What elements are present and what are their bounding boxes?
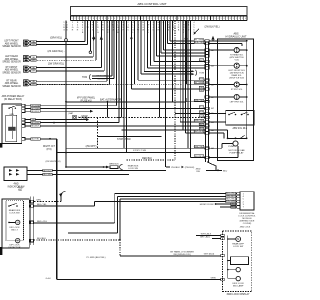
svg-text:IND LT: IND LT: [11, 229, 18, 231]
svg-text:2: 2: [75, 18, 76, 20]
svg-text:2: 2: [212, 18, 213, 20]
bundle B staircase wires: [147, 21, 205, 68]
runner 113 dashed: [175, 21, 205, 161]
hydraulic unit box: [217, 39, 253, 161]
svg-text:9: 9: [178, 18, 179, 20]
svg-text:BLK BLU: BLK BLU: [43, 170, 52, 172]
left edge artifact 2: [0, 247, 2, 255]
svg-text:SPEED SENSOR: SPEED SENSOR: [2, 72, 21, 74]
svg-text:6: 6: [196, 18, 197, 20]
svg-text:9: 9: [205, 18, 206, 20]
svg-text:BLU/BLK: BLU/BLK: [37, 238, 47, 240]
svg-text:9: 9: [233, 18, 234, 20]
svg-text:9: 9: [123, 18, 124, 20]
wire BLU/BLK dashed diff: [34, 238, 121, 241]
svg-text:7: 7: [172, 18, 173, 20]
svg-text:LAMP: LAMP: [81, 118, 88, 121]
svg-text:1: 1: [99, 18, 100, 20]
svg-text:4: 4: [190, 18, 191, 20]
svg-text:GRN: GRN: [9, 114, 14, 116]
bottom ground run: [46, 278, 221, 280]
wire 152: [57, 152, 190, 154]
marker triangle bundle B: [184, 35, 187, 39]
splice drop vertical: [165, 21, 167, 168]
svg-text:INDICATOR SW: INDICATOR SW: [8, 185, 26, 188]
left long vertical: [65, 21, 68, 168]
fuse panel label: [77, 97, 96, 103]
svg-text:1: 1: [208, 18, 209, 20]
svg-text:WHT+BLK: WHT+BLK: [201, 233, 212, 235]
pin wire-color label strips: [63, 22, 195, 34]
top arrow into unit: [211, 36, 214, 42]
svg-text:RT FRONT: RT FRONT: [6, 67, 18, 69]
svg-text:(2W GRA/YEL): (2W GRA/YEL): [48, 63, 64, 66]
bundle A wire A4: [118, 21, 120, 123]
display top note: [240, 227, 251, 229]
runner 157: [190, 21, 205, 158]
bundle A wire A5: [121, 21, 123, 118]
svg-text:GRN: GRN: [199, 79, 204, 81]
svg-text:BLK+YEL: BLK+YEL: [194, 42, 204, 44]
solenoid at y84.5: [209, 82, 248, 91]
svg-text:GRN: GRN: [31, 71, 36, 73]
display box dashed: [223, 231, 252, 291]
svg-text:5: 5: [166, 18, 167, 20]
svg-text:LOCK SW: LOCK SW: [233, 246, 244, 248]
svg-text:INT PANEL LTS DIMMER: INT PANEL LTS DIMMER: [170, 250, 194, 253]
svg-text:RED BLK: RED BLK: [142, 158, 152, 160]
svg-text:REAR DIFF: REAR DIFF: [9, 209, 21, 212]
svg-text:MONITOR SW: MONITOR SW: [200, 204, 214, 206]
svg-text:6: 6: [114, 18, 115, 20]
svg-text:6: 6: [142, 18, 143, 20]
unit top feeds: [209, 41, 247, 46]
svg-text:8: 8: [230, 18, 231, 20]
runner 130: [182, 21, 184, 131]
svg-text:BAT, ALTERNATOR: BAT, ALTERNATOR: [100, 99, 121, 102]
svg-text:(2W WHT/BLK): (2W WHT/BLK): [45, 161, 60, 163]
svg-text:2: 2: [129, 18, 130, 20]
svg-text:SPEED SENSOR: SPEED SENSOR: [2, 86, 21, 88]
svg-text:4: 4: [135, 18, 136, 20]
svg-text:LEFT FNT SOL: LEFT FNT SOL: [230, 101, 245, 103]
svg-text:ABS WHEEL: ABS WHEEL: [5, 69, 19, 72]
svg-text:BLU/BLK: BLU/BLK: [31, 111, 40, 113]
svg-text:TOM: TOM: [199, 73, 204, 75]
arrow marker wire: [100, 21, 103, 41]
svg-text:BLU+YEL: BLU+YEL: [226, 193, 236, 195]
wire BLK WHT: [27, 173, 129, 176]
svg-text:YEL/BLK: YEL/BLK: [97, 79, 106, 81]
relay wire BLU/WHT: [25, 107, 205, 110]
svg-text:WHT: WHT: [199, 124, 204, 126]
BAT label: [68, 112, 74, 115]
wire RED to strip: [122, 129, 206, 131]
4WD display internals: [227, 235, 249, 287]
wire fuse panel low: [86, 250, 220, 259]
ABS control unit U1 label: [137, 2, 166, 6]
svg-text:6: 6: [224, 18, 225, 20]
runner 148: [187, 21, 189, 149]
svg-text:ABS WHEEL: ABS WHEEL: [5, 42, 19, 45]
left rear ABS wheel speed sensor: [2, 21, 96, 64]
svg-text:4WD LOCK: 4WD LOCK: [240, 227, 251, 229]
strip bottom stub: [207, 162, 216, 171]
ABS control unit U1 box: [71, 7, 248, 16]
svg-text:RT FNT SOL: RT FNT SOL: [231, 89, 243, 91]
svg-text:5: 5: [84, 18, 85, 20]
wire GRY+BLU disp: [200, 237, 221, 239]
diff lock connector column: [30, 196, 34, 244]
svg-text:CRN: CRN: [36, 200, 41, 202]
bundle A wire A7: [126, 21, 128, 153]
svg-text:9: 9: [151, 18, 152, 20]
svg-text:PUMP: PUMP: [228, 146, 235, 148]
svg-text:HYDRAULIC UNIT: HYDRAULIC UNIT: [226, 35, 247, 38]
svg-text:1: 1: [126, 18, 127, 20]
svg-text:BRN BLK: BRN BLK: [109, 164, 119, 166]
relay wire BLU/RED: [25, 121, 119, 124]
strip wire labels: [194, 39, 204, 158]
svg-text:(SHUTTLE VLV): (SHUTTLE VLV): [229, 77, 244, 79]
svg-text:DIFFERENTIAL: DIFFERENTIAL: [239, 212, 255, 215]
module wire 1: [115, 194, 237, 224]
wire stop lt sw: [98, 136, 162, 152]
svg-text:4: 4: [108, 18, 109, 20]
runner 132: [185, 21, 205, 133]
svg-text:IND LAMP: IND LAMP: [233, 285, 244, 288]
svg-text:1: 1: [181, 18, 182, 20]
svg-text:M: M: [237, 237, 239, 241]
svg-text:4: 4: [81, 18, 82, 20]
svg-text:4WD LOCK DISPLAY: 4WD LOCK DISPLAY: [226, 293, 249, 296]
svg-text:STOP LT SW: STOP LT SW: [117, 139, 131, 141]
svg-text:VLV): VLV): [235, 59, 240, 61]
svg-text:P# 4WD (BLK/YEL): P# 4WD (BLK/YEL): [86, 257, 105, 259]
runner 101: [172, 21, 205, 102]
svg-text:GRN: GRN: [199, 116, 204, 118]
svg-text:YLO: YLO: [199, 107, 203, 109]
solenoid at y65.7: [209, 63, 248, 79]
svg-text:3: 3: [242, 18, 243, 20]
bundle A wire A3: [116, 21, 118, 106]
svg-text:REAR DIFF: REAR DIFF: [232, 243, 244, 246]
svg-text:9: 9: [96, 18, 97, 20]
svg-text:BLK/YEL: BLK/YEL: [31, 139, 40, 141]
wire 2W WHT: [66, 146, 205, 148]
display box label: [226, 293, 249, 296]
svg-text:(2W WHT): (2W WHT): [86, 146, 97, 148]
svg-text:GRN: GRN: [31, 60, 36, 62]
4WD sw wire: [196, 169, 228, 174]
svg-text:BLU/RED: BLU/RED: [31, 122, 40, 124]
left edge artifact 1: [0, 143, 2, 148]
svg-text:RED+YEL: RED+YEL: [37, 221, 48, 223]
pump motor and relay: [209, 130, 248, 158]
runner 122: [180, 21, 205, 123]
svg-text:ABS WHEEL: ABS WHEEL: [5, 58, 19, 61]
svg-text:GRN+YEL: GRN+YEL: [194, 146, 204, 148]
svg-text:7: 7: [145, 18, 146, 20]
solenoid at y97.0: [209, 94, 248, 103]
svg-text:8: 8: [120, 18, 121, 20]
hydraulic unit connector strip: [205, 40, 210, 162]
net label P-5: [43, 146, 56, 151]
4WD indicator switch connector: [4, 167, 27, 188]
svg-text:ABS WHEEL: ABS WHEEL: [5, 82, 19, 85]
svg-text:4: 4: [163, 18, 164, 20]
GRY BL label: [204, 254, 215, 256]
svg-text:PUMP RELAY: PUMP RELAY: [230, 152, 244, 155]
runner 117: [158, 21, 160, 118]
svg-text:(2W BLK/YEL): (2W BLK/YEL): [205, 27, 220, 29]
svg-text:4: 4: [218, 18, 219, 20]
left front ABS wheel speed sensor: [2, 21, 87, 49]
svg-text:2: 2: [184, 18, 185, 20]
dashed vertical stoplamp: [97, 118, 99, 149]
svg-text:7: 7: [199, 18, 200, 20]
svg-text:WHT+BLK: WHT+BLK: [194, 131, 204, 133]
diamond marker wire: [92, 21, 95, 41]
svg-text:2: 2: [157, 18, 158, 20]
svg-text:LEFT REAR: LEFT REAR: [5, 55, 18, 58]
stop lamp feed vertical: [106, 102, 108, 118]
svg-text:5: 5: [138, 18, 139, 20]
wire GRN disp: [211, 278, 216, 280]
wire BLK+YEL diff: [34, 204, 95, 206]
svg-text:3: 3: [132, 18, 133, 20]
svg-text:G-04: G-04: [46, 278, 52, 280]
svg-text:RT REAR: RT REAR: [6, 79, 16, 82]
solenoid at y50.1: [209, 48, 248, 62]
relay wire YEL/GRN: [25, 104, 117, 107]
stop lamp S1: [72, 116, 205, 121]
svg-text:RIGHT JCT: RIGHT JCT: [43, 146, 56, 148]
svg-text:4WD: 4WD: [13, 184, 18, 186]
svg-text:SPEED SENSOR: SPEED SENSOR: [2, 62, 21, 64]
svg-text:SPEED SENSOR: SPEED SENSOR: [2, 46, 21, 48]
svg-text:(IN RELAY BOX): (IN RELAY BOX): [4, 98, 22, 101]
svg-text:YEL/BLK: YEL/BLK: [171, 167, 180, 169]
svg-text:TOM: TOM: [82, 77, 87, 79]
svg-text:GRN+YEL: GRN+YEL: [194, 120, 204, 122]
svg-text:BLU: BLU: [223, 170, 228, 172]
wire RED+YEL diff: [34, 221, 115, 223]
svg-text:COVER): COVER): [243, 223, 252, 225]
svg-text:LEFT FRONT: LEFT FRONT: [4, 41, 19, 43]
wire BAT ALTERNATOR: [65, 98, 186, 103]
svg-text:ABS SOL RLY: ABS SOL RLY: [232, 127, 247, 130]
dot marker on 131: [130, 37, 132, 39]
right inner bus: [246, 40, 248, 138]
svg-text:YEL+GRN: YEL+GRN: [194, 82, 204, 84]
ABS solenoid relay: [209, 110, 254, 129]
relay wire BLU/BLK long: [25, 125, 205, 128]
2W BLK splice: [166, 166, 195, 169]
display box pins: [221, 234, 224, 281]
svg-text:LOCK SW: LOCK SW: [9, 212, 20, 214]
svg-text:3: 3: [78, 18, 79, 20]
svg-text:BLK/BLU: BLK/BLU: [195, 156, 204, 158]
svg-text:GRN: GRN: [31, 84, 36, 86]
svg-text:BLU/BLK: BLU/BLK: [31, 126, 40, 128]
TOM connector brace: [82, 21, 114, 81]
svg-text:3: 3: [160, 18, 161, 20]
staircase join dashed: [134, 21, 136, 85]
svg-text:LOCK SW: LOCK SW: [128, 168, 138, 170]
wire mid low: [68, 232, 117, 234]
relay wire BLU/BLK short: [25, 110, 93, 113]
long dashed sensor wire to strip: [36, 21, 205, 85]
svg-text:3: 3: [105, 18, 106, 20]
relay wire BLK/YEL: [25, 138, 57, 141]
svg-text:6: 6: [169, 18, 170, 20]
2W note low: [45, 161, 60, 163]
module wire 4: [95, 202, 237, 207]
svg-text:M: M: [17, 221, 19, 225]
svg-text:GRN: GRN: [211, 278, 216, 280]
svg-text:4: 4: [245, 18, 246, 20]
strip pin numbers: [211, 49, 214, 150]
staircase wire GRN: [138, 21, 206, 81]
svg-text:GRN+YEL: GRN+YEL: [194, 100, 204, 102]
svg-text:3: 3: [187, 18, 188, 20]
svg-text:BLK+YEL: BLK+YEL: [37, 204, 47, 206]
module wire 2: [117, 196, 237, 233]
svg-text:YER: YER: [199, 112, 204, 114]
svg-text:GRN: GRN: [31, 44, 36, 46]
module wire 3: [120, 199, 237, 240]
svg-text:7: 7: [90, 18, 91, 20]
svg-text:7: 7: [227, 18, 228, 20]
dashed vertical 122: [119, 240, 121, 256]
svg-text:ABS CONTROL UNIT: ABS CONTROL UNIT: [137, 2, 166, 6]
svg-text:( BAT: ( BAT: [68, 112, 74, 115]
svg-text:8: 8: [93, 18, 94, 20]
wire RED BLK: [127, 158, 176, 160]
long left vertical to bottom: [56, 139, 58, 280]
svg-text:2: 2: [239, 18, 240, 20]
svg-text:(GRA/YEL): (GRA/YEL): [50, 37, 62, 40]
2W BLK/YEL stub: [193, 27, 219, 35]
wire BLK BLU: [27, 169, 166, 172]
svg-text:4WD: 4WD: [17, 187, 22, 189]
svg-text:MOTOR IN CAB: MOTOR IN CAB: [228, 149, 245, 152]
svg-text:1: 1: [154, 18, 155, 20]
wire WHT+BLK disp: [196, 233, 221, 235]
ABS power relay K1: [2, 95, 25, 143]
svg-text:2: 2: [102, 18, 103, 20]
right rear ABS wheel speed sensor: [2, 21, 109, 88]
svg-text:RED: RED: [199, 128, 204, 130]
diode splice row: [65, 164, 139, 170]
svg-text:GRY+BLU: GRY+BLU: [200, 237, 211, 239]
svg-text:M: M: [17, 239, 19, 243]
ABS control unit connector pin row: [71, 16, 248, 21]
svg-text:STOP LT SW: STOP LT SW: [133, 150, 147, 152]
right front ABS wheel speed sensor: [2, 21, 104, 75]
circle splice wire: [89, 21, 92, 54]
svg-text:5: 5: [193, 18, 194, 20]
svg-text:1: 1: [72, 18, 73, 20]
bundle A wire A6: [123, 21, 125, 149]
svg-text:1: 1: [236, 18, 237, 20]
wire CRN off-page: [34, 191, 66, 201]
staircase wire y89: [131, 21, 205, 90]
rear diff lock switch box: [2, 187, 29, 249]
svg-text:(P-5): (P-5): [46, 149, 51, 151]
relay wire GRN arrow: [25, 116, 89, 121]
svg-text:(2S GRA/YEL) -: (2S GRA/YEL) -: [47, 50, 64, 53]
svg-text:8: 8: [175, 18, 176, 20]
differential lock control module: [200, 192, 257, 225]
svg-text:DETECTOR: DETECTOR: [9, 247, 21, 249]
svg-text:GRY (BLU): GRY (BLU): [204, 254, 215, 256]
svg-text:(2W BLK): (2W BLK): [185, 167, 195, 169]
hydraulic unit label: [226, 32, 247, 38]
svg-text:6: 6: [87, 18, 88, 20]
svg-text:5: 5: [221, 18, 222, 20]
TOM arrow pair: [141, 21, 204, 76]
svg-text:8: 8: [148, 18, 149, 20]
svg-text:BLK WHT: BLK WHT: [43, 174, 53, 176]
svg-text:5: 5: [111, 18, 112, 20]
svg-text:SW (2WD/4LOCK): SW (2WD/4LOCK): [173, 254, 191, 256]
svg-text:7: 7: [117, 18, 118, 20]
svg-text:8: 8: [202, 18, 203, 20]
svg-text:3: 3: [215, 18, 216, 20]
